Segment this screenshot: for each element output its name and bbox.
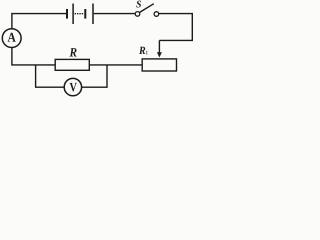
switch S blade xyxy=(140,4,154,13)
label V inside voltmeter xyxy=(70,83,77,92)
battery cell 1 short plate (negative) xyxy=(66,9,68,19)
battery cell 1 long plate (positive) xyxy=(72,4,74,25)
label R1 subscript 1 xyxy=(146,51,147,55)
label R1 xyxy=(139,47,145,54)
label S xyxy=(136,1,141,8)
ammeter A circle xyxy=(2,29,21,48)
wire: R right side to rheostat R1 xyxy=(89,64,142,66)
label R xyxy=(69,48,76,56)
resistor R body xyxy=(55,59,89,70)
wire: switch to top-right corner and down xyxy=(159,13,193,41)
wire: voltmeter left branch from node at x=35.6 xyxy=(35,65,64,87)
label A inside ammeter xyxy=(8,33,16,42)
battery cell 2 long plate (positive) xyxy=(92,4,94,25)
rheostat R1 body xyxy=(142,59,176,71)
wire: ammeter top lead up and right to battery xyxy=(11,14,66,29)
battery cell 2 short plate (negative) xyxy=(84,9,86,19)
switch S left contact xyxy=(135,12,140,17)
wire: voltmeter right branch to node at x=107 xyxy=(82,65,107,88)
wire: step left to rheostat wiper xyxy=(159,40,193,53)
battery dots (more cells) xyxy=(75,13,84,15)
wire: battery to switch xyxy=(94,13,136,15)
switch S right contact xyxy=(154,12,159,17)
rheostat wiper arrowhead xyxy=(157,52,162,57)
voltmeter V circle xyxy=(64,78,81,95)
wire: ammeter bottom lead down and right to R xyxy=(11,47,55,65)
